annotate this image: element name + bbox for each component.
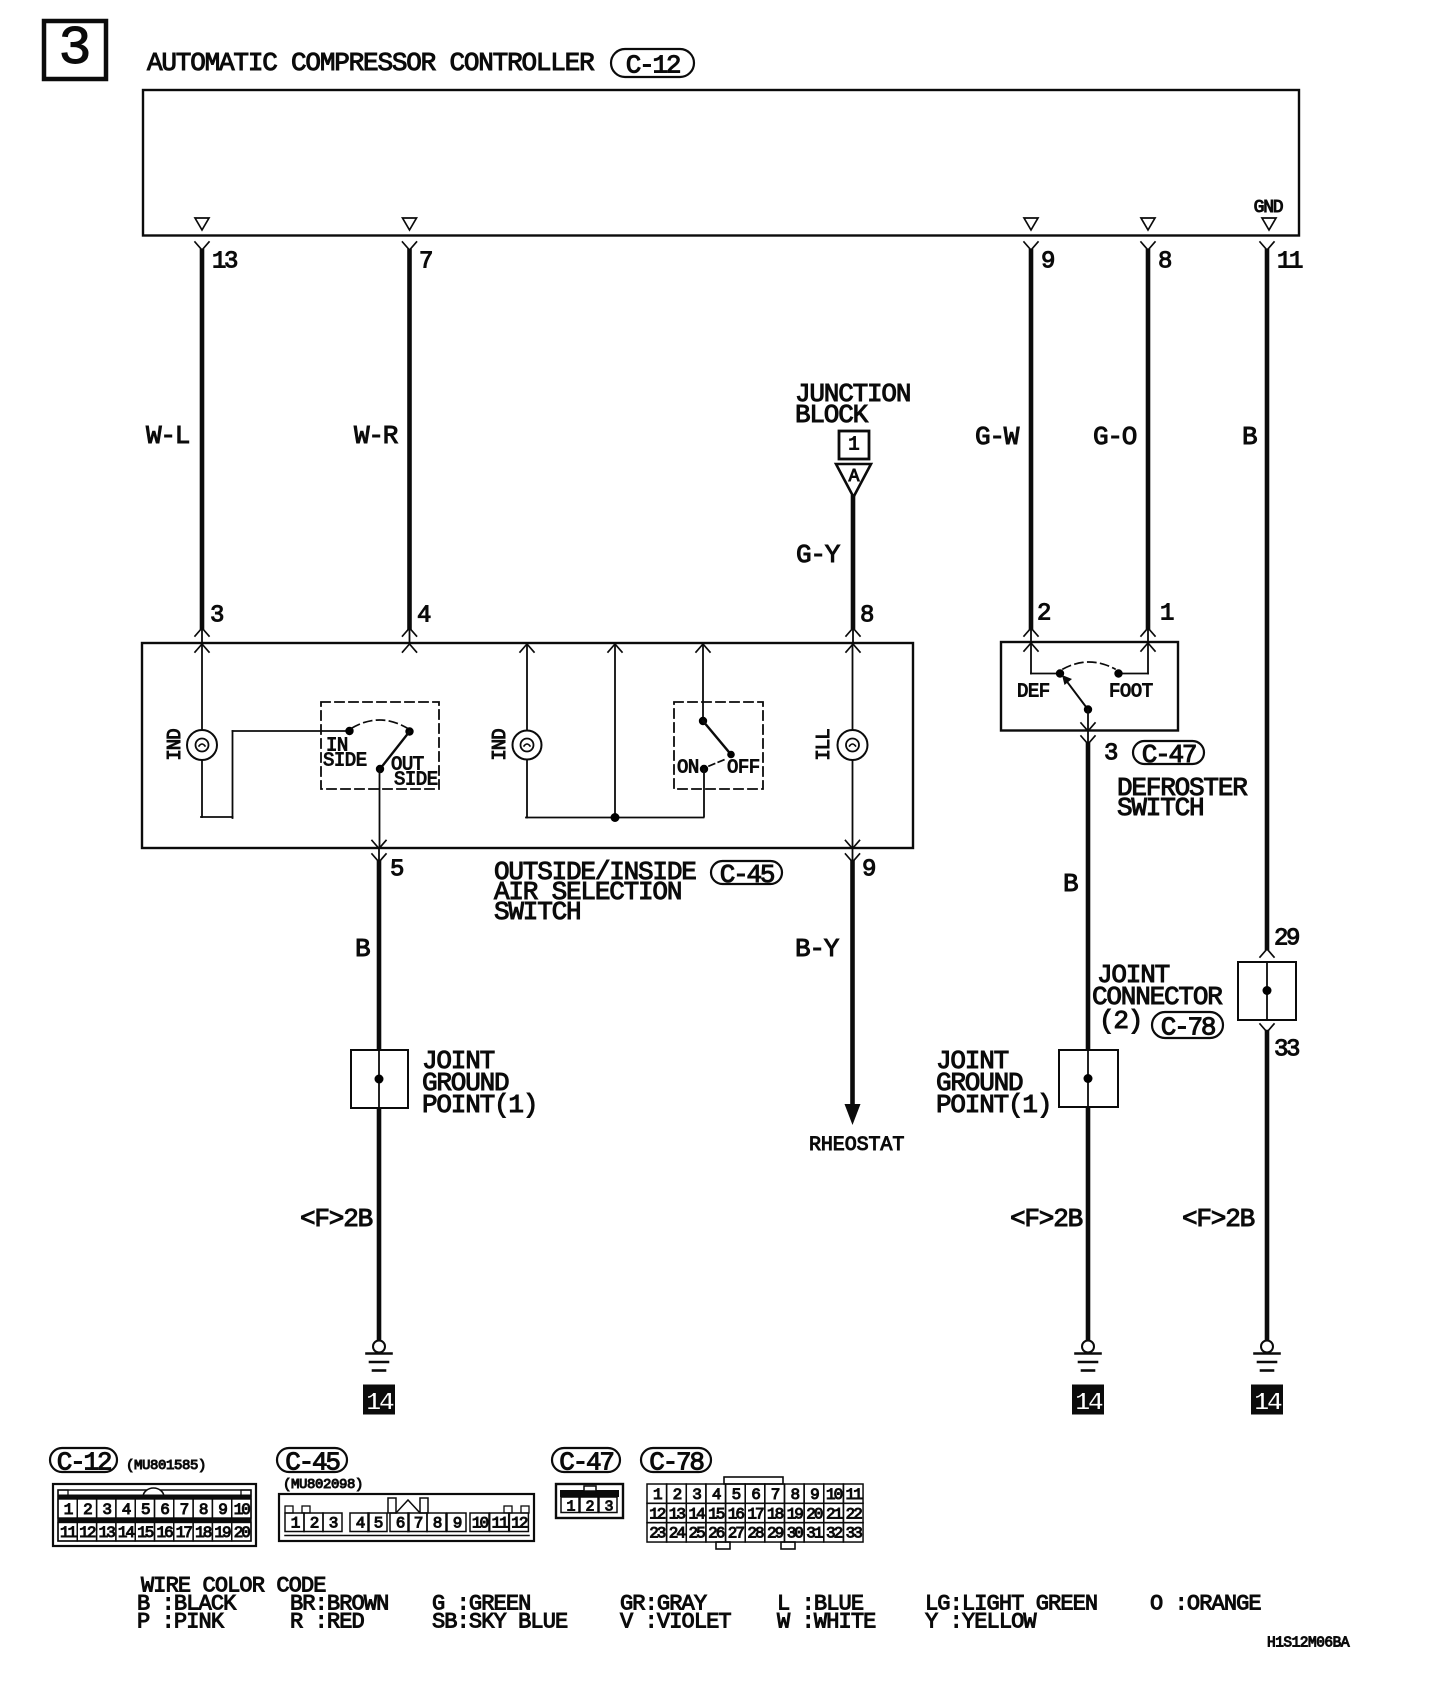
- svg-text:SWITCH: SWITCH: [1117, 793, 1203, 823]
- svg-text:8: 8: [433, 1515, 442, 1533]
- label IN SIDE: [323, 734, 367, 771]
- wire G-O pin8: [1141, 242, 1155, 651]
- svg-text:7: 7: [419, 249, 432, 276]
- svg-text:2: 2: [673, 1486, 682, 1504]
- ground symbol right: [1255, 1341, 1280, 1371]
- svg-text:12: 12: [649, 1505, 666, 1523]
- pin number 8: [1158, 249, 1171, 276]
- svg-text:18: 18: [767, 1505, 784, 1523]
- svg-text:1: 1: [848, 433, 859, 455]
- svg-text:<F>2B: <F>2B: [1010, 1204, 1083, 1234]
- svg-text:15: 15: [137, 1524, 154, 1542]
- node ON contact: [700, 765, 708, 773]
- svg-text:POINT(1): POINT(1): [422, 1090, 537, 1120]
- label JOINT GROUND POINT(1) right: [936, 1046, 1051, 1120]
- wire ON contact to bus: [703, 769, 705, 817]
- svg-text:32: 32: [826, 1525, 843, 1543]
- node DEF contact: [1056, 669, 1064, 677]
- svg-text:23: 23: [649, 1525, 666, 1543]
- svg-text:13: 13: [669, 1505, 686, 1523]
- pin number 9 (switch bottom): [862, 857, 875, 884]
- pin number 3 (switch): [210, 603, 223, 630]
- wire label W-L: [146, 421, 189, 451]
- label JOINT GROUND POINT(1) left: [422, 1046, 537, 1120]
- svg-text:5: 5: [374, 1515, 383, 1533]
- wire defroster B: [1086, 744, 1091, 1340]
- svg-text:SWITCH: SWITCH: [494, 897, 580, 927]
- svg-text:30: 30: [787, 1525, 804, 1543]
- node IN contact: [345, 727, 353, 735]
- label OUT SIDE: [391, 753, 438, 790]
- wire label B-Y: [795, 934, 840, 964]
- svg-text:3: 3: [329, 1515, 338, 1533]
- label MU801585: [126, 1458, 206, 1474]
- wire W-R pin7: [403, 242, 417, 652]
- svg-text:G-O: G-O: [1093, 422, 1137, 452]
- pin number 4 (switch): [417, 603, 431, 630]
- connector label C-45 (stadium): [711, 860, 782, 890]
- selector dashed arc: [352, 720, 407, 728]
- svg-text:18: 18: [195, 1524, 212, 1542]
- svg-text:1: 1: [291, 1515, 300, 1533]
- svg-text:7: 7: [180, 1501, 189, 1519]
- svg-text:3: 3: [692, 1486, 701, 1504]
- svg-text:RHEOSTAT: RHEOSTAT: [809, 1134, 904, 1157]
- svg-text:<F>2B: <F>2B: [300, 1204, 373, 1234]
- connector mark pin 13: [195, 218, 209, 230]
- svg-text:4: 4: [417, 603, 431, 630]
- label JOINT CONNECTOR (2): [1092, 960, 1222, 1036]
- ground ref 14 right: [1252, 1385, 1283, 1418]
- svg-text:O :ORANGE: O :ORANGE: [1150, 1591, 1261, 1616]
- svg-text:9: 9: [862, 857, 875, 884]
- svg-text:12: 12: [511, 1515, 528, 1533]
- svg-text:C-45: C-45: [285, 1447, 339, 1477]
- svg-text:ON: ON: [677, 756, 699, 778]
- svg-text:W-L: W-L: [146, 421, 189, 451]
- svg-text:11: 11: [60, 1524, 77, 1542]
- wire defroster common to pin3: [1081, 710, 1095, 745]
- svg-text:C-78: C-78: [649, 1447, 703, 1477]
- connector C-47 pin view: [556, 1484, 623, 1518]
- svg-text:6: 6: [160, 1501, 169, 1519]
- svg-text:4: 4: [356, 1515, 365, 1533]
- svg-text:3: 3: [102, 1501, 111, 1519]
- svg-text:IND: IND: [489, 729, 511, 761]
- label OUTSIDE/INSIDE AIR SELECTION SWITCH: [494, 857, 696, 927]
- wire label G-Y: [796, 540, 841, 570]
- svg-text:A: A: [849, 467, 860, 487]
- connector C-78 pin view: [647, 1477, 863, 1549]
- svg-text:14: 14: [1254, 1388, 1282, 1418]
- pin number 11: [1277, 249, 1303, 276]
- svg-text:2: 2: [310, 1515, 319, 1533]
- connector mark pin 8: [1141, 218, 1155, 230]
- svg-text:21: 21: [826, 1505, 843, 1523]
- svg-text:20: 20: [234, 1524, 251, 1542]
- svg-text:12: 12: [79, 1524, 96, 1542]
- joint ground point box (right): [1059, 1050, 1118, 1107]
- svg-text:33: 33: [846, 1525, 863, 1543]
- svg-text:9: 9: [453, 1515, 462, 1533]
- svg-text:SIDE: SIDE: [323, 749, 367, 771]
- pin number 1 (defroster): [1160, 601, 1174, 628]
- wire ILL to pin9: [852, 760, 854, 848]
- svg-text:16: 16: [728, 1505, 745, 1523]
- svg-text:33: 33: [1274, 1037, 1299, 1064]
- svg-text:9: 9: [810, 1486, 819, 1504]
- svg-text:26: 26: [708, 1525, 725, 1543]
- svg-text:4: 4: [122, 1501, 131, 1519]
- wire label B (left): [355, 934, 370, 964]
- label DEF: [1017, 680, 1050, 702]
- svg-text:G-W: G-W: [975, 422, 1020, 452]
- selector lever: [380, 732, 410, 770]
- svg-text:13: 13: [212, 249, 237, 276]
- svg-text:7: 7: [414, 1515, 423, 1533]
- GND label: [1254, 198, 1283, 218]
- svg-text:3: 3: [1104, 741, 1117, 768]
- label (F)2B right: [1182, 1204, 1255, 1234]
- node ON/OFF common: [699, 717, 707, 725]
- ground symbol left: [367, 1341, 392, 1371]
- svg-text:27: 27: [728, 1525, 745, 1543]
- svg-text:29: 29: [767, 1525, 784, 1543]
- node selector common: [376, 765, 384, 773]
- junction block terminal box 1: [839, 431, 869, 459]
- svg-text:24: 24: [669, 1525, 686, 1543]
- joint ground point box (left): [351, 1050, 408, 1108]
- pin number 8 (switch): [860, 603, 873, 630]
- svg-text:25: 25: [688, 1525, 705, 1543]
- label IND2 (vertical): [489, 729, 511, 761]
- label MU802098: [283, 1477, 363, 1493]
- svg-text:31: 31: [806, 1525, 823, 1543]
- svg-text:2: 2: [1037, 601, 1050, 628]
- wire G-Y: [846, 497, 860, 652]
- connector label C-47 (bottom stadium): [552, 1447, 620, 1477]
- svg-text:17: 17: [176, 1524, 193, 1542]
- svg-text:C-47: C-47: [1142, 740, 1196, 770]
- svg-text:B: B: [355, 934, 370, 964]
- inside/outside selector dashed box: [321, 702, 439, 789]
- connector C-12 pin view: [53, 1484, 256, 1546]
- connector label C-12 (bottom stadium): [50, 1447, 117, 1477]
- connector C-45 pin view: [279, 1494, 534, 1541]
- svg-text:C-12: C-12: [626, 50, 680, 80]
- connector label C-45 (bottom stadium): [277, 1447, 347, 1477]
- svg-text:1: 1: [653, 1486, 662, 1504]
- svg-text:17: 17: [747, 1505, 764, 1523]
- svg-text:10: 10: [472, 1515, 489, 1533]
- arrow to RHEOSTAT: [845, 1104, 861, 1125]
- svg-text:4: 4: [712, 1486, 721, 1504]
- wire pin2 to DEF contact: [1031, 643, 1056, 674]
- svg-text:8: 8: [860, 603, 873, 630]
- wire B pin11: [1260, 242, 1274, 957]
- label AUTOMATIC COMPRESSOR CONTROLLER: [147, 48, 594, 78]
- label (F)2B left: [300, 1204, 373, 1234]
- defroster dashed arc: [1063, 662, 1115, 669]
- wire label G-W: [975, 422, 1020, 452]
- wire pin5 B: [372, 841, 386, 1341]
- wire label B (right): [1242, 422, 1257, 452]
- wire color code legend: [137, 1573, 1261, 1634]
- on/off dashed link: [709, 759, 726, 766]
- svg-text:14: 14: [366, 1388, 394, 1418]
- svg-text:9: 9: [1041, 249, 1054, 276]
- pin number 9: [1041, 249, 1054, 276]
- svg-text:R :RED: R :RED: [290, 1609, 365, 1634]
- node bus junction: [611, 813, 620, 822]
- svg-text:C-12: C-12: [57, 1447, 111, 1477]
- svg-text:(MU802098): (MU802098): [283, 1477, 363, 1493]
- svg-text:9: 9: [218, 1501, 227, 1519]
- svg-text:22: 22: [846, 1505, 863, 1523]
- svg-text:DEF: DEF: [1017, 680, 1050, 702]
- svg-text:14: 14: [118, 1524, 135, 1542]
- svg-text:B-Y: B-Y: [795, 934, 840, 964]
- lamp IND1: [187, 644, 217, 760]
- svg-text:ILL: ILL: [813, 729, 835, 761]
- wire pin9 B-Y: [846, 841, 860, 1105]
- ground symbol middle: [1076, 1341, 1101, 1371]
- svg-text:<F>2B: <F>2B: [1182, 1204, 1255, 1234]
- svg-text:7: 7: [771, 1486, 780, 1504]
- svg-text:V :VIOLET: V :VIOLET: [620, 1609, 731, 1634]
- svg-text:28: 28: [747, 1525, 764, 1543]
- internal wire to box top: [608, 644, 622, 818]
- connector label C-12 (title stadium): [611, 49, 694, 80]
- ground ref 14 left: [364, 1385, 395, 1418]
- svg-text:20: 20: [806, 1505, 823, 1523]
- svg-text:1: 1: [1160, 601, 1174, 628]
- label FOOT: [1109, 680, 1153, 702]
- svg-text:3: 3: [58, 17, 91, 80]
- svg-text:C-78: C-78: [1161, 1012, 1215, 1042]
- svg-text:(MU801585): (MU801585): [126, 1458, 206, 1474]
- wire W-L pin13: [195, 242, 209, 652]
- label RHEOSTAT: [809, 1134, 904, 1157]
- svg-text:G-Y: G-Y: [796, 540, 841, 570]
- svg-text:14: 14: [688, 1505, 705, 1523]
- svg-text:IND: IND: [164, 729, 186, 761]
- svg-text:2: 2: [83, 1501, 92, 1519]
- svg-text:H1S12M06BA: H1S12M06BA: [1267, 1636, 1350, 1652]
- lamp IND2: [513, 644, 542, 760]
- label OFF: [727, 756, 760, 778]
- wire pin33 B: [1260, 1024, 1274, 1340]
- svg-text:5: 5: [390, 857, 403, 884]
- svg-text:1: 1: [64, 1501, 73, 1519]
- svg-text:6: 6: [751, 1486, 760, 1504]
- svg-text:C-45: C-45: [720, 860, 774, 890]
- svg-text:14: 14: [1075, 1388, 1103, 1418]
- wire selector common to pin5: [379, 769, 381, 848]
- svg-text:B: B: [1063, 869, 1078, 899]
- wire G-W pin9: [1024, 242, 1038, 651]
- svg-text:29: 29: [1274, 926, 1299, 953]
- node defroster common: [1084, 705, 1092, 713]
- svg-text:OFF: OFF: [727, 756, 760, 778]
- on/off lever: [703, 721, 735, 758]
- controller U1 box (C-12): [143, 90, 1299, 236]
- node OUT contact: [405, 727, 413, 735]
- pin number 3 (defroster): [1104, 741, 1117, 768]
- svg-text:BLOCK: BLOCK: [795, 400, 869, 430]
- pin number 29: [1274, 926, 1299, 953]
- joint connector box (C-78): [1238, 962, 1296, 1020]
- wire IND1 to IN contact: [201, 731, 350, 818]
- svg-text:SIDE: SIDE: [394, 768, 438, 790]
- svg-text:5: 5: [732, 1486, 741, 1504]
- node FOOT contact: [1114, 669, 1122, 677]
- ground ref 14 middle: [1073, 1385, 1104, 1418]
- air selection switch S1 box (C-45): [142, 643, 913, 848]
- svg-text:6: 6: [396, 1515, 405, 1533]
- pin number 2 (defroster): [1037, 601, 1050, 628]
- svg-text:Y :YELLOW: Y :YELLOW: [925, 1609, 1037, 1634]
- svg-text:AUTOMATIC COMPRESSOR CONTROLLE: AUTOMATIC COMPRESSOR CONTROLLER: [147, 48, 594, 78]
- svg-text:GND: GND: [1254, 198, 1283, 218]
- svg-text:8: 8: [1158, 249, 1171, 276]
- on/off switch dashed box: [674, 702, 763, 789]
- wire IND2 bottom bus: [526, 760, 704, 818]
- svg-text:8: 8: [790, 1486, 799, 1504]
- label DEFROSTER SWITCH: [1117, 773, 1247, 823]
- svg-text:3: 3: [210, 603, 223, 630]
- label IND1 (vertical): [164, 729, 186, 761]
- connector label C-78 (stadium mid): [1152, 1012, 1223, 1042]
- svg-text:FOOT: FOOT: [1109, 680, 1153, 702]
- defroster lever with arrow: [1062, 675, 1088, 710]
- svg-text:5: 5: [141, 1501, 150, 1519]
- svg-text:2: 2: [585, 1499, 593, 1516]
- svg-text:(2): (2): [1099, 1006, 1142, 1036]
- label JUNCTION BLOCK: [795, 379, 910, 430]
- connector mark pin 11 GND: [1262, 218, 1276, 230]
- pin number 13: [212, 249, 237, 276]
- wire pin1 to FOOT contact: [1122, 643, 1148, 674]
- pin number 7: [419, 249, 432, 276]
- svg-text:POINT(1): POINT(1): [936, 1090, 1051, 1120]
- svg-text:19: 19: [214, 1524, 231, 1542]
- connector label C-47 (stadium): [1133, 740, 1204, 770]
- svg-text:11: 11: [1277, 249, 1303, 276]
- drawing number H1S12M06BA: [1267, 1636, 1350, 1652]
- pin number 33: [1274, 1037, 1299, 1064]
- connector mark pin 7: [403, 218, 417, 230]
- svg-text:P :PINK: P :PINK: [137, 1609, 225, 1634]
- svg-text:19: 19: [787, 1505, 804, 1523]
- pin number 5: [390, 857, 403, 884]
- defroster switch S2 box: [1001, 642, 1178, 731]
- lamp ILL: [838, 644, 868, 760]
- wire label W-R: [354, 421, 398, 451]
- svg-text:11: 11: [846, 1486, 863, 1504]
- svg-text:8: 8: [199, 1501, 208, 1519]
- svg-text:SB:SKY BLUE: SB:SKY BLUE: [432, 1609, 568, 1634]
- svg-text:16: 16: [156, 1524, 173, 1542]
- svg-text:W :WHITE: W :WHITE: [777, 1609, 876, 1634]
- connector label C-78 (bottom stadium): [641, 1447, 711, 1477]
- svg-text:10: 10: [234, 1501, 251, 1519]
- svg-text:C-47: C-47: [559, 1447, 613, 1477]
- page index box 3: [44, 17, 106, 80]
- svg-text:W-R: W-R: [354, 421, 398, 451]
- svg-text:15: 15: [708, 1505, 725, 1523]
- label (F)2B middle: [1010, 1204, 1083, 1234]
- label ON: [677, 756, 699, 778]
- svg-text:B: B: [1242, 422, 1257, 452]
- svg-text:13: 13: [99, 1524, 116, 1542]
- wire label B (defroster): [1063, 869, 1078, 899]
- svg-text:10: 10: [826, 1486, 843, 1504]
- label ILL (vertical): [813, 729, 835, 761]
- junction block triangle A: [836, 464, 871, 497]
- wire ON/OFF common to box top: [696, 644, 710, 721]
- svg-text:11: 11: [492, 1515, 509, 1533]
- connector mark pin 9: [1024, 218, 1038, 230]
- wire label G-O: [1093, 422, 1137, 452]
